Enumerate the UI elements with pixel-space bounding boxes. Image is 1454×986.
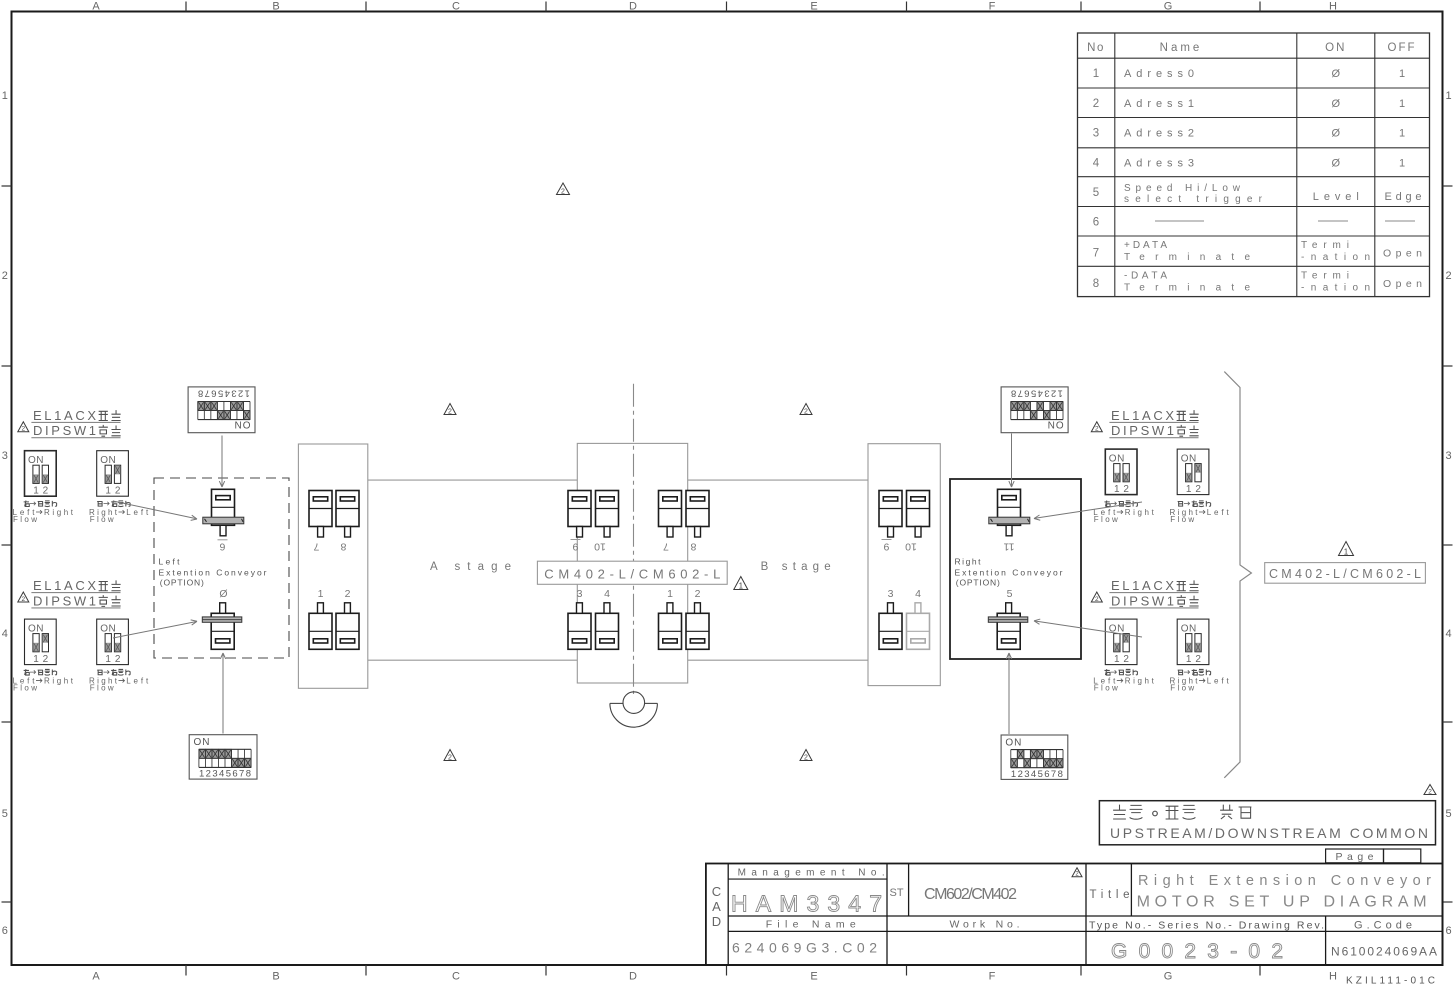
svg-text:Flow: Flow <box>1170 683 1194 692</box>
svg-text:Ø: Ø <box>1332 128 1341 140</box>
svg-text:B: B <box>272 1 279 13</box>
svg-text:9: 9 <box>883 541 889 553</box>
svg-text:Left: Left <box>159 557 181 567</box>
svg-text:2: 2 <box>1095 426 1099 433</box>
svg-text:G: G <box>1164 1 1173 13</box>
svg-text:ON: ON <box>1005 738 1022 749</box>
svg-text:1: 1 <box>1399 157 1405 169</box>
svg-text:A: A <box>92 971 100 983</box>
svg-text:H: H <box>1329 971 1337 983</box>
svg-text:H: H <box>1329 1 1337 13</box>
svg-text:3: 3 <box>2 450 8 462</box>
svg-text:2: 2 <box>1195 484 1201 495</box>
svg-text:1: 1 <box>1186 654 1192 665</box>
svg-text:8: 8 <box>340 541 346 553</box>
svg-text:(OPTION): (OPTION) <box>956 578 1000 588</box>
svg-text:2: 2 <box>1123 484 1129 495</box>
svg-text:2: 2 <box>1445 270 1451 282</box>
svg-text:1: 1 <box>2 90 8 102</box>
svg-text:1: 1 <box>1445 90 1451 102</box>
svg-text:6: 6 <box>1445 925 1451 937</box>
svg-text:OFF: OFF <box>1388 42 1417 54</box>
svg-text:6: 6 <box>2 925 8 937</box>
svg-text:KZIL111-01C: KZIL111-01C <box>1346 976 1435 986</box>
svg-text:2: 2 <box>2 270 8 282</box>
svg-text:1: 1 <box>1399 98 1405 110</box>
svg-text:4: 4 <box>2 628 8 640</box>
svg-text:ON: ON <box>234 419 251 430</box>
svg-text:(OPTION): (OPTION) <box>160 578 204 588</box>
svg-text:F: F <box>989 971 996 983</box>
svg-text:1: 1 <box>105 486 111 497</box>
svg-text:5: 5 <box>1007 588 1013 600</box>
svg-text:D: D <box>629 1 637 13</box>
svg-text:Ø: Ø <box>1332 68 1341 80</box>
svg-text:7: 7 <box>1093 248 1099 260</box>
svg-text:2: 2 <box>1093 98 1099 110</box>
svg-text:E: E <box>810 971 817 983</box>
svg-text:6: 6 <box>219 541 225 553</box>
svg-text:D: D <box>712 914 721 929</box>
svg-text:2: 2 <box>115 654 121 665</box>
svg-text:3: 3 <box>577 588 583 600</box>
svg-text:12345678: 12345678 <box>198 388 250 399</box>
svg-text:Ø: Ø <box>219 588 227 600</box>
svg-text:1: 1 <box>1186 484 1192 495</box>
svg-text:2: 2 <box>804 408 808 415</box>
svg-text:2: 2 <box>1428 788 1432 795</box>
svg-text:7: 7 <box>663 541 669 553</box>
svg-text:ON: ON <box>1109 454 1125 465</box>
svg-text:C: C <box>712 884 721 899</box>
svg-text:2: 2 <box>1123 654 1129 665</box>
svg-text:1: 1 <box>1093 68 1099 80</box>
svg-text:12345678: 12345678 <box>199 769 251 780</box>
svg-text:3: 3 <box>1093 128 1099 140</box>
svg-text:1: 1 <box>667 588 673 600</box>
svg-text:Ø: Ø <box>1332 157 1341 169</box>
svg-text:1: 1 <box>1344 547 1349 556</box>
svg-text:2: 2 <box>1195 654 1201 665</box>
svg-text:1: 1 <box>105 654 111 665</box>
svg-text:Flow: Flow <box>90 683 114 692</box>
svg-text:ST: ST <box>890 887 904 899</box>
svg-text:Left: Left <box>1207 508 1230 517</box>
svg-text:2: 2 <box>21 426 25 433</box>
svg-text:2: 2 <box>448 408 452 415</box>
svg-text:ON: ON <box>28 624 44 635</box>
svg-text:Extention Conveyor: Extention Conveyor <box>159 568 267 578</box>
svg-text:ON: ON <box>1181 624 1197 635</box>
svg-text:Extention Conveyor: Extention Conveyor <box>955 568 1063 578</box>
svg-text:4: 4 <box>1445 628 1451 640</box>
svg-text:9: 9 <box>572 541 578 553</box>
svg-text:B: B <box>272 971 279 983</box>
svg-text:Name: Name <box>1160 42 1203 54</box>
svg-text:ON: ON <box>1181 454 1197 465</box>
svg-text:2: 2 <box>21 596 25 603</box>
svg-text:1: 1 <box>1114 654 1120 665</box>
svg-text:Left: Left <box>126 676 149 685</box>
svg-text:Left: Left <box>126 508 149 517</box>
svg-text:-DATA: -DATA <box>1124 270 1167 281</box>
svg-text:2: 2 <box>345 588 351 600</box>
svg-text:Left: Left <box>1207 676 1230 685</box>
svg-text:2: 2 <box>695 588 701 600</box>
svg-text:2: 2 <box>43 654 49 665</box>
svg-text:5: 5 <box>1093 187 1099 199</box>
svg-text:2: 2 <box>561 188 565 195</box>
svg-text:7: 7 <box>313 541 319 553</box>
svg-text:Flow: Flow <box>1170 515 1194 524</box>
svg-text:5: 5 <box>1445 808 1451 820</box>
svg-text:4: 4 <box>604 588 610 600</box>
svg-text:5: 5 <box>2 808 8 820</box>
svg-text:ON: ON <box>100 624 116 635</box>
svg-text:G: G <box>1164 971 1173 983</box>
svg-text:2: 2 <box>804 754 808 761</box>
svg-text:A: A <box>92 1 100 13</box>
svg-text:1: 1 <box>1399 68 1405 80</box>
svg-text:C: C <box>452 971 460 983</box>
svg-text:Terminate: Terminate <box>1124 252 1250 263</box>
svg-text:ON: ON <box>194 737 211 748</box>
svg-text:E: E <box>810 1 817 13</box>
svg-text:UPSTREAM/DOWNSTREAM COMMON: UPSTREAM/DOWNSTREAM COMMON <box>1110 825 1428 841</box>
svg-text:F: F <box>989 1 996 13</box>
svg-text:ON: ON <box>28 455 44 466</box>
svg-text:4: 4 <box>915 588 921 600</box>
svg-text:CM602/CM402: CM602/CM402 <box>924 886 1017 903</box>
svg-text:ON: ON <box>1047 419 1064 430</box>
svg-text:2: 2 <box>448 754 452 761</box>
svg-text:1: 1 <box>33 486 39 497</box>
svg-text:3: 3 <box>1445 450 1451 462</box>
svg-text:12345678: 12345678 <box>1011 769 1063 780</box>
svg-text:C: C <box>452 1 460 13</box>
svg-text:Flow: Flow <box>13 683 37 692</box>
svg-text:Type No.- Series No.- Drawing: Type No.- Series No.- Drawing Rev. <box>1089 920 1324 932</box>
svg-text:Flow: Flow <box>13 515 37 524</box>
svg-text:10: 10 <box>905 541 917 553</box>
svg-text:Flow: Flow <box>90 515 114 524</box>
svg-text:4: 4 <box>1093 157 1100 169</box>
svg-text:Flow: Flow <box>1094 683 1118 692</box>
svg-text:No: No <box>1087 42 1105 54</box>
svg-text:A: A <box>712 899 721 914</box>
svg-text:3: 3 <box>888 588 894 600</box>
svg-text:1: 1 <box>1399 128 1405 140</box>
svg-text:10: 10 <box>594 541 606 553</box>
svg-text:2: 2 <box>43 486 49 497</box>
svg-text:D: D <box>629 971 637 983</box>
svg-text:Title: Title <box>1090 889 1130 901</box>
svg-text:1: 1 <box>1114 484 1120 495</box>
svg-text:ON: ON <box>1325 42 1346 54</box>
svg-text:1: 1 <box>318 588 324 600</box>
svg-text:2: 2 <box>115 486 121 497</box>
svg-text:1: 1 <box>739 581 744 590</box>
svg-text:6: 6 <box>1093 217 1099 229</box>
svg-text:N610024069AA: N610024069AA <box>1331 945 1437 959</box>
svg-text:2: 2 <box>1095 596 1099 603</box>
svg-text:12345678: 12345678 <box>1011 388 1063 399</box>
svg-text:8: 8 <box>690 541 696 553</box>
svg-text:1: 1 <box>33 654 39 665</box>
svg-text:Ø: Ø <box>1332 98 1341 110</box>
svg-text:ON: ON <box>100 455 116 466</box>
svg-text:8: 8 <box>1093 278 1099 290</box>
svg-text:Flow: Flow <box>1094 515 1118 524</box>
svg-text:Terminate: Terminate <box>1124 282 1250 293</box>
svg-text:11: 11 <box>1003 541 1014 553</box>
